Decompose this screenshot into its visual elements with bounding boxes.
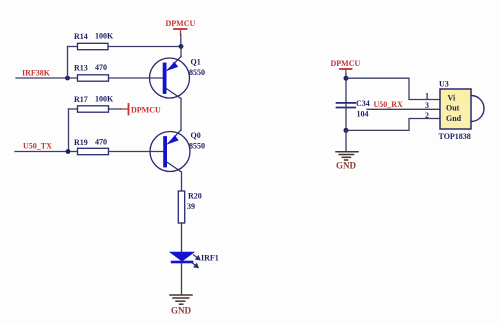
wire bottom node to U3 pin2 xyxy=(346,119,440,131)
svg-text:Out: Out xyxy=(446,104,460,113)
node right top junction xyxy=(344,76,349,81)
wire R17 right xyxy=(109,108,122,110)
svg-text:U3: U3 xyxy=(439,80,449,89)
transistor Q1 emitter diagonal xyxy=(167,57,181,71)
svg-text:GND: GND xyxy=(171,306,192,316)
svg-text:C34: C34 xyxy=(356,99,370,108)
wire U50_TX net horizontal xyxy=(15,151,78,153)
node U50_TX junction xyxy=(66,149,71,154)
transistor Q1 collector diagonal xyxy=(166,89,181,99)
wire DPMCU right down xyxy=(345,74,347,103)
svg-text:3: 3 xyxy=(425,101,429,110)
wire rail R14-left to IRF38K node xyxy=(67,47,69,79)
svg-text:DPMCU: DPMCU xyxy=(131,106,161,115)
svg-text:Gnd: Gnd xyxy=(446,114,462,123)
svg-text:100K: 100K xyxy=(95,95,114,104)
wire IRF38K net horizontal xyxy=(16,77,78,79)
wire DPMCU bar down to node xyxy=(180,35,182,47)
svg-text:U50_TX: U50_TX xyxy=(23,142,52,151)
power DPMCU mid bar xyxy=(128,104,130,115)
wire through capacitor xyxy=(345,103,347,108)
svg-text:39: 39 xyxy=(187,202,195,211)
svg-text:U50_RX: U50_RX xyxy=(374,100,404,109)
wire top node to U3 pin1 xyxy=(346,78,440,99)
node right bottom junction xyxy=(344,128,349,133)
resistor R13 xyxy=(78,75,109,81)
wire R14 right to DPMCU node xyxy=(108,46,181,48)
transistor Q0 collector diagonal xyxy=(167,162,182,172)
svg-text:Q1: Q1 xyxy=(191,58,201,67)
power DPMCU mid red lead xyxy=(121,108,129,110)
resistor R17 xyxy=(78,106,109,112)
svg-text:2: 2 xyxy=(425,111,429,120)
wire R19 right to Q0 base xyxy=(109,151,165,153)
LED emission arrow 2 xyxy=(192,263,198,268)
svg-text:R17: R17 xyxy=(74,95,88,104)
wire bottom node to GND right xyxy=(345,130,347,151)
wire U50_RX to U3 pin3 xyxy=(367,108,440,110)
power DPMCU left bar xyxy=(174,28,187,30)
wire R14 left lead xyxy=(68,46,78,48)
svg-text:1: 1 xyxy=(425,92,429,101)
node DPMCU junction xyxy=(179,44,184,49)
wire Q0 collector to R20 xyxy=(181,172,183,191)
power DPMCU right bar xyxy=(340,68,352,70)
transistor Q0 circle xyxy=(150,132,190,172)
svg-text:100K: 100K xyxy=(95,32,114,41)
resistor R19 xyxy=(78,148,109,154)
transistor Q0 emitter diagonal xyxy=(168,130,181,144)
wire Q1 collector to Q0 emitter xyxy=(180,99,182,131)
transistor Q1 circle xyxy=(150,58,190,98)
transistor Q0 emitter arrow xyxy=(168,135,179,144)
svg-text:DPMCU: DPMCU xyxy=(166,19,196,28)
LED emission arrow 1 xyxy=(194,255,200,260)
svg-text:R19: R19 xyxy=(74,138,88,147)
svg-text:GND: GND xyxy=(336,161,357,171)
svg-text:IRF1: IRF1 xyxy=(201,254,219,263)
svg-text:8550: 8550 xyxy=(189,142,205,151)
svg-text:Vi: Vi xyxy=(448,94,456,103)
transistor Q1 emitter arrow xyxy=(167,62,178,71)
wire DPMCU node to Q1 emitter xyxy=(180,47,182,57)
transistor Q1 base bar xyxy=(163,65,167,93)
transistor Q0 base bar xyxy=(163,138,167,166)
ground left xyxy=(170,295,192,304)
svg-text:8550: 8550 xyxy=(189,68,205,77)
wire R17 rail down to U50_TX node xyxy=(68,109,70,152)
wire cap bottom to bottom node xyxy=(345,108,347,131)
IC U3 box xyxy=(440,89,471,129)
ground right xyxy=(336,152,358,160)
LED cathode bar xyxy=(171,261,194,264)
svg-text:DPMCU: DPMCU xyxy=(331,59,361,68)
svg-text:Q0: Q0 xyxy=(191,131,201,140)
resistor R14 xyxy=(78,43,109,49)
svg-text:R20: R20 xyxy=(188,192,202,201)
wire R17 left lead xyxy=(69,108,78,110)
node IRF38K junction xyxy=(65,76,70,81)
LED IRF1 anode triangle xyxy=(169,252,195,262)
svg-text:470: 470 xyxy=(95,63,107,72)
svg-text:104: 104 xyxy=(357,110,369,119)
capacitor C34 xyxy=(337,103,356,108)
svg-text:TOP1838: TOP1838 xyxy=(439,132,471,141)
wire R20 to LED xyxy=(181,223,183,252)
svg-text:470: 470 xyxy=(95,138,107,147)
resistor R20 xyxy=(178,191,184,223)
svg-text:R14: R14 xyxy=(74,32,88,41)
svg-text:R13: R13 xyxy=(74,64,88,73)
IC U3 lens arc xyxy=(471,96,484,122)
wire R13 right to Q1 base xyxy=(109,77,164,79)
wire LED to GND xyxy=(181,263,183,295)
svg-text:IRF38K: IRF38K xyxy=(22,69,51,78)
